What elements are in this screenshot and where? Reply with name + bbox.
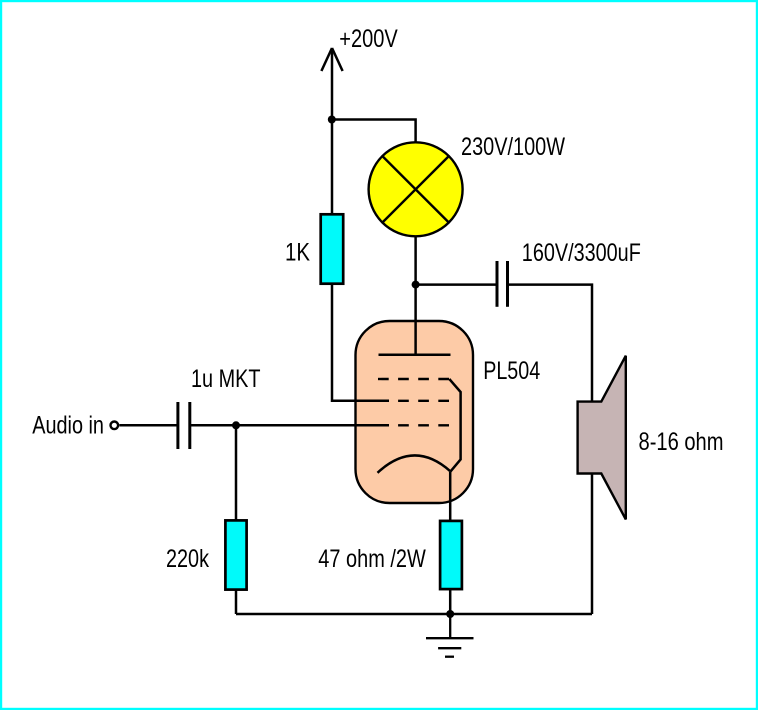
wire: 47 ohm bottom to ground rail: [449, 589, 452, 614]
svg-text:1u MKT: 1u MKT: [191, 365, 261, 393]
grid g2 screen (dashed): [378, 400, 451, 402]
capacitor 1u MKT: [178, 402, 190, 449]
wire: lamp bottom to anode node: [414, 236, 417, 284]
cathode: [378, 455, 451, 472]
ground: [426, 614, 474, 657]
wire: R1 bottom down and right to screen grid: [332, 284, 389, 401]
resistor 47 ohm /2W: [440, 521, 462, 589]
resistor 1K: [321, 214, 344, 283]
node: supply junction: [328, 116, 336, 124]
wire: cap to control grid: [190, 424, 389, 427]
wire: capacitor right plate to right rail, down to bottom rail: [508, 285, 593, 614]
resistor 220k: [225, 520, 246, 589]
wire: terminal to coupling cap: [119, 424, 178, 427]
wire: anode node to capacitor left plate: [416, 283, 497, 286]
svg-text:160V/3300uF: 160V/3300uF: [522, 239, 641, 267]
svg-text:+200V: +200V: [339, 25, 398, 53]
wire: cathode lead to R cathode: [449, 472, 452, 521]
svg-text:PL504: PL504: [483, 357, 540, 385]
wire: 220k bottom to ground rail: [235, 590, 238, 615]
svg-text:220k: 220k: [166, 545, 209, 573]
internal g3-cathode connection: [449, 379, 460, 472]
svg-text:8-16 ohm: 8-16 ohm: [639, 428, 724, 456]
grid g1 control (dashed): [378, 424, 451, 426]
input terminal Audio in: [111, 422, 119, 430]
lamp 230V/100W: [369, 142, 463, 236]
wire: supply down to junction: [331, 48, 334, 120]
wire: bottom ground rail: [236, 613, 592, 616]
grid g3 (dashed): [378, 378, 451, 380]
svg-text:47 ohm /2W: 47 ohm /2W: [318, 545, 426, 573]
wire: junction to lamp top: [332, 120, 416, 143]
tube PL504: [356, 285, 474, 503]
node: grid input node: [232, 421, 240, 429]
capacitor 160V/3300uF: [497, 261, 508, 307]
svg-text:Audio in: Audio in: [32, 412, 104, 440]
node: anode node: [412, 281, 420, 289]
power supply arrow +200V: [321, 48, 342, 71]
speaker 8-16 ohm: [578, 356, 626, 520]
anode lead: [414, 285, 417, 355]
wire: grid node down to R 220k: [235, 425, 238, 520]
wire: junction down to resistor R1: [331, 120, 334, 215]
node: ground node: [446, 610, 454, 618]
anode plate: [379, 353, 451, 356]
svg-text:1K: 1K: [285, 238, 310, 266]
svg-text:230V/100W: 230V/100W: [461, 133, 565, 161]
